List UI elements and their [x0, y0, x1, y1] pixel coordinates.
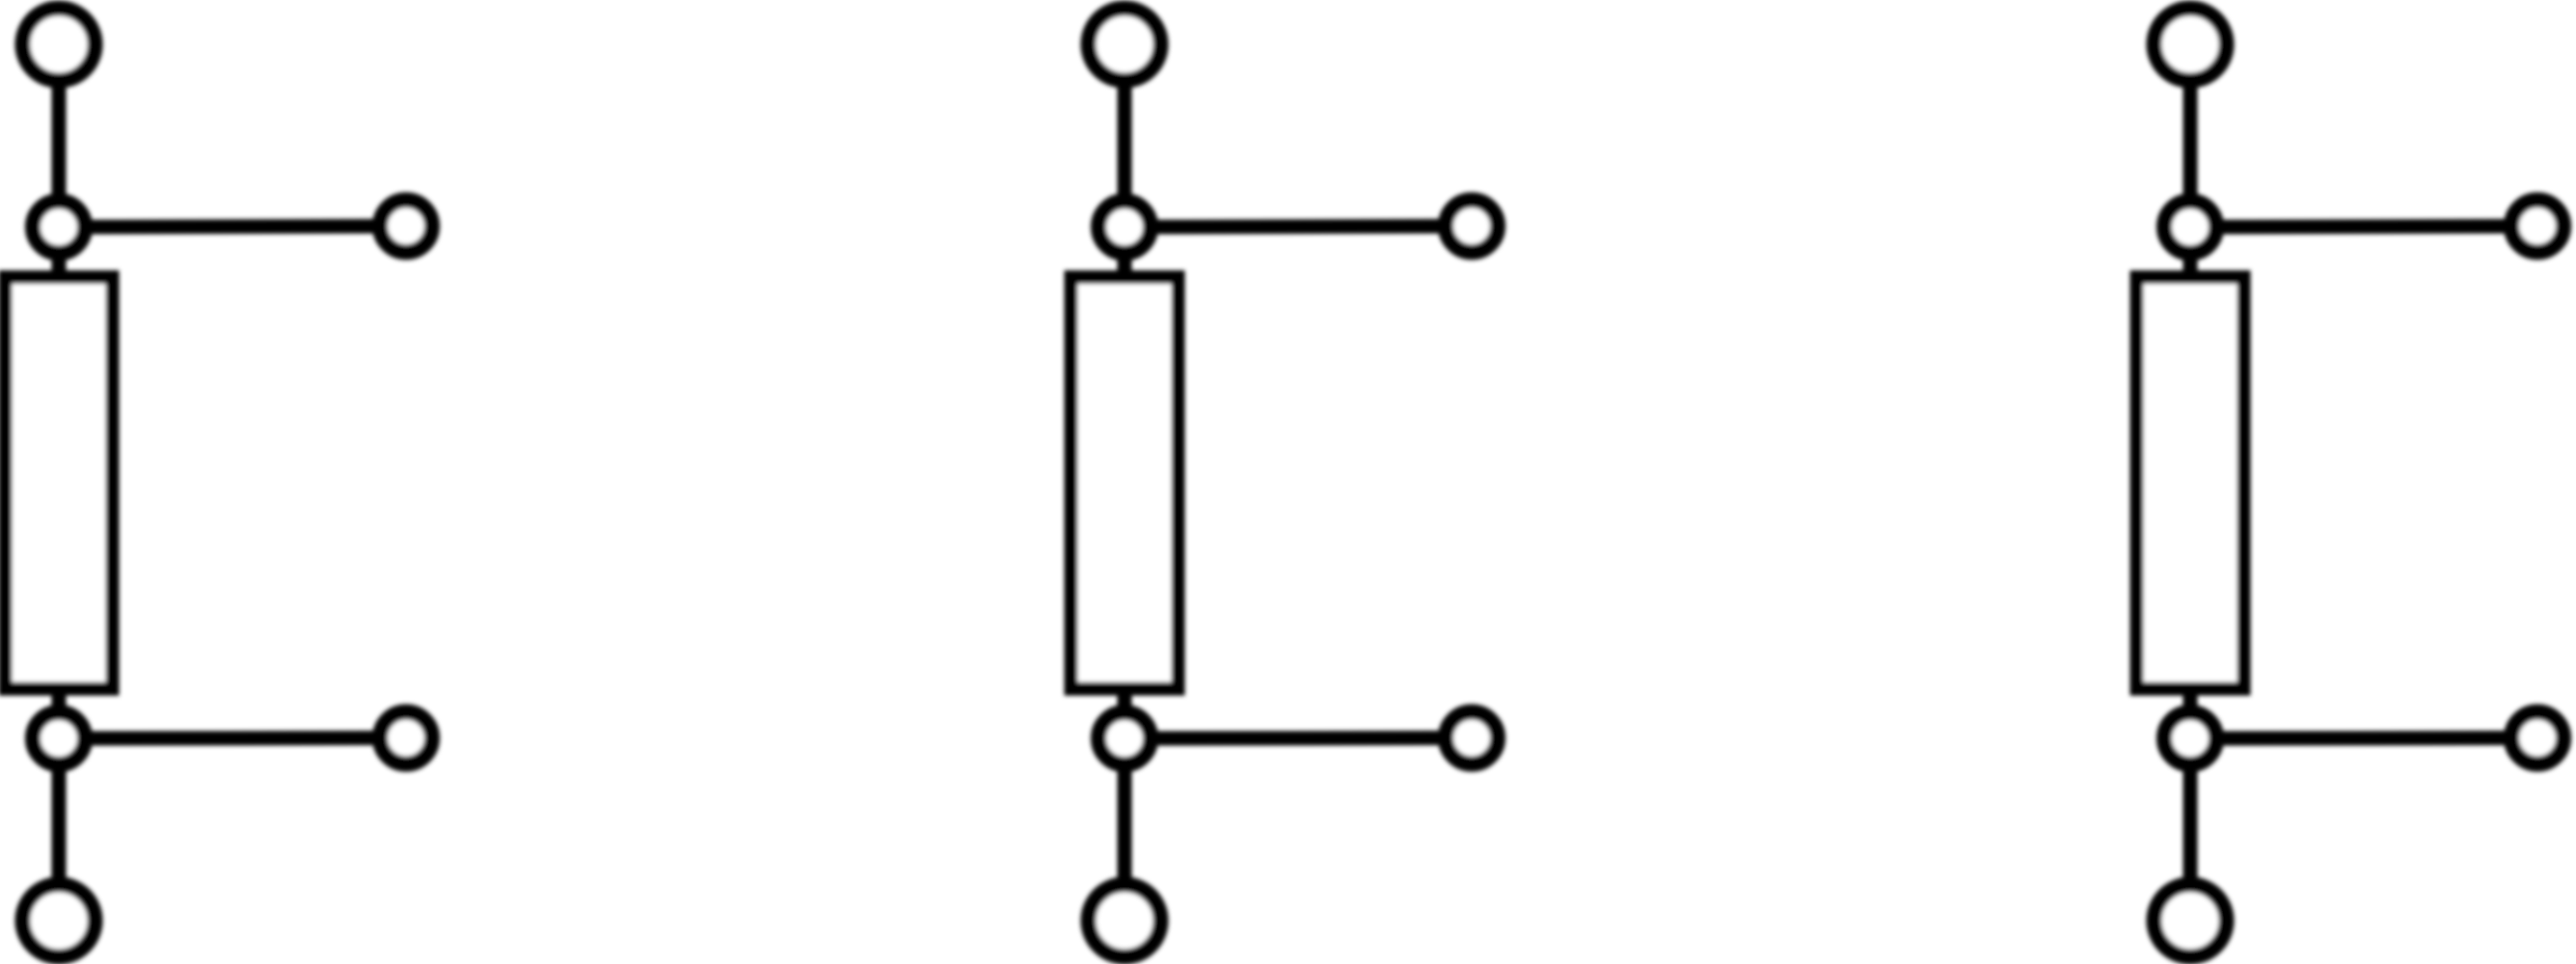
wire node A3 to body: [2183, 228, 2198, 285]
body (line section rectangle) X1: [6, 278, 113, 689]
wire node A1 to body: [52, 228, 67, 285]
terminal port 1 (top): [2155, 9, 2227, 81]
tap terminal A3': [2511, 201, 2563, 253]
tap terminal A1': [380, 201, 432, 253]
terminal port 1 (top): [1089, 9, 1161, 81]
tap terminal B1': [380, 712, 432, 764]
tap terminal B3': [2511, 712, 2563, 764]
terminal port 2 (bottom): [2155, 885, 2227, 957]
wire tap at node B3: [2190, 731, 2537, 746]
node B2: [1098, 712, 1151, 764]
wire top terminal to node A2: [1118, 44, 1132, 228]
wire node B1 to bottom terminal: [52, 738, 67, 921]
wire tap at node A1: [59, 227, 406, 228]
node B1: [33, 712, 85, 764]
node A3: [2164, 201, 2216, 254]
wire body to node B2: [1118, 683, 1132, 738]
element X3 (two-port line section 3): [2137, 9, 2564, 957]
wire node B3 to bottom terminal: [2183, 738, 2198, 921]
terminal port 1 (top): [23, 9, 95, 81]
element X2 (two-port line section 2): [1071, 9, 1499, 957]
body (line section rectangle) X2: [1071, 278, 1179, 689]
tap terminal A2': [1446, 201, 1498, 253]
wire body to node B3: [2183, 683, 2198, 738]
wire node A2 to body: [1118, 228, 1132, 285]
body (line section rectangle) X3: [2137, 278, 2244, 689]
tap terminal B2': [1446, 712, 1498, 764]
wire tap at node A3: [2190, 227, 2537, 228]
wire body to node B1: [52, 683, 67, 738]
node A2: [1098, 201, 1151, 254]
node B3: [2164, 712, 2216, 764]
node A1: [33, 201, 85, 254]
wire tap at node B2: [1125, 731, 1472, 746]
terminal port 2 (bottom): [23, 885, 95, 957]
element X1 (two-port line section 1): [6, 9, 433, 957]
wire tap at node A2: [1125, 227, 1472, 228]
wire top terminal to node A1: [52, 44, 67, 228]
wire top terminal to node A3: [2183, 44, 2198, 228]
wire tap at node B1: [59, 731, 406, 746]
terminal port 2 (bottom): [1089, 885, 1161, 957]
wire node B2 to bottom terminal: [1118, 738, 1132, 921]
